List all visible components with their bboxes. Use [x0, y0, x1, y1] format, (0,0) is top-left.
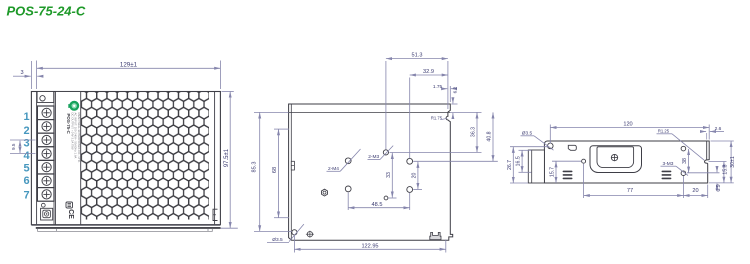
side vent slots right [662, 171, 672, 173]
dimension 20 vertical [413, 189, 422, 191]
front DC jack [41, 203, 45, 207]
svg-text:POS-75-24-C: POS-75-24-C [7, 4, 86, 19]
hole 2-M4 with leader [345, 158, 351, 164]
dimension 32.9 [409, 78, 411, 159]
svg-text:129±1: 129±1 [120, 62, 138, 69]
dimension 77 and 20 [583, 164, 585, 198]
dimension 1.75 [449, 86, 451, 102]
svg-text:32.9: 32.9 [423, 69, 434, 75]
svg-text:9.5: 9.5 [11, 143, 16, 150]
dimension 38 [688, 149, 690, 173]
svg-text:2: 2 [23, 125, 29, 137]
corner hole Ø3.5 [292, 230, 297, 235]
svg-text:CE: CE [67, 209, 74, 219]
svg-text:3-M3: 3-M3 [663, 161, 674, 167]
svg-text:Ø3.5: Ø3.5 [522, 130, 533, 136]
front bottom-right clip [213, 209, 218, 220]
dimension 36.3 [450, 111, 481, 113]
hole small center [384, 196, 388, 200]
chassis seam line [289, 111, 451, 113]
hole right top [407, 158, 413, 164]
dimension 15.3 [709, 161, 727, 163]
side hole Ø3.5 top left [548, 143, 554, 149]
svg-text:48.5: 48.5 [372, 202, 383, 208]
svg-text:R1.25: R1.25 [658, 128, 670, 133]
dimension 6.2 [451, 103, 457, 105]
svg-text:2-M4: 2-M4 [328, 166, 339, 172]
svg-text:15.3: 15.3 [722, 164, 728, 174]
svg-text:2-M3: 2-M3 [368, 154, 379, 160]
dimension 48.5 [347, 192, 349, 210]
svg-text:3: 3 [20, 70, 23, 76]
side hole right bottom 3-M3 [681, 171, 686, 176]
svg-text:38: 38 [682, 158, 688, 164]
svg-text:6.2: 6.2 [452, 86, 458, 93]
svg-text:16.5: 16.5 [516, 156, 522, 166]
leader R1.25 [672, 134, 704, 160]
dimension 33 [391, 153, 393, 198]
dimension 68 [274, 128, 289, 130]
side small D hole [568, 145, 576, 150]
plus mark [307, 232, 312, 237]
dimension 26.7 [510, 146, 548, 148]
svg-text:120: 120 [623, 122, 632, 128]
dimension 120 [549, 125, 551, 144]
dimension 30±1 [711, 140, 734, 142]
left edge tab [291, 161, 294, 170]
hole bottom left [345, 186, 351, 192]
dimension 129±1 [36, 61, 38, 90]
svg-text:20: 20 [692, 188, 698, 194]
front bottom rail [31, 224, 220, 226]
front view case outline [31, 92, 220, 225]
notch R1.75 label [442, 118, 448, 119]
svg-text:6: 6 [23, 175, 29, 187]
svg-text:15.7: 15.7 [550, 167, 556, 177]
label CE marks [66, 202, 73, 208]
svg-text:1.75: 1.75 [433, 84, 443, 90]
svg-text:97.5±1: 97.5±1 [224, 148, 230, 167]
svg-text:2.6: 2.6 [715, 126, 722, 132]
hole 2-M3 with leader [383, 150, 388, 155]
dimension 51.3 [385, 61, 387, 150]
svg-text:5: 5 [23, 162, 29, 174]
side view body outline [544, 141, 709, 183]
svg-text:33: 33 [386, 172, 392, 178]
dimension 40.8 [413, 160, 498, 162]
side recess with screw [590, 146, 642, 173]
terminal block with 7 screws [37, 106, 54, 120]
svg-text:1: 1 [23, 111, 29, 123]
bottom right bracket [430, 232, 441, 239]
bottom view plate outline [289, 104, 453, 240]
svg-text:68: 68 [272, 167, 278, 173]
dimension 9.5 terminal pitch [10, 139, 36, 141]
svg-text:Ø3.5: Ø3.5 [272, 237, 283, 243]
dimension 16.5 [519, 149, 532, 151]
svg-text:7: 7 [23, 190, 29, 202]
svg-text:3: 3 [23, 137, 29, 149]
side terminal block [528, 150, 544, 183]
svg-text:R1.75: R1.75 [431, 116, 443, 121]
svg-text:85.3: 85.3 [251, 162, 257, 173]
label panel [55, 92, 80, 225]
hex nut hole [322, 189, 328, 196]
dimension 3 [30, 61, 32, 89]
svg-text:6.9: 6.9 [716, 184, 722, 191]
side vent slots left [563, 171, 573, 173]
svg-text:51.3: 51.3 [412, 53, 423, 59]
svg-text:77: 77 [627, 188, 633, 194]
svg-text:4: 4 [23, 150, 30, 162]
side hole small [582, 159, 586, 163]
svg-text:MEAN WELL ENTERPRISES CO., LTD: MEAN WELL ENTERPRISES CO., LTD. [77, 113, 81, 163]
side hole right top [681, 146, 686, 151]
svg-text:POS-75-C: POS-75-C [66, 114, 71, 135]
front mounting ear with hole [37, 92, 54, 103]
dimension 6.9 [687, 172, 720, 174]
dimension 15.7 [552, 160, 581, 162]
svg-text:26.7: 26.7 [507, 160, 513, 170]
green MW logo [68, 104, 71, 108]
honeycomb vent grille [81, 92, 209, 220]
dimension 122.95 [293, 236, 295, 253]
hole bottom right [407, 187, 413, 193]
dimension 2.6 [706, 133, 708, 140]
svg-text:122.95: 122.95 [361, 244, 378, 250]
dimension 97.5±1 [222, 91, 234, 93]
dimension 85.3 [254, 111, 289, 113]
svg-text:20: 20 [412, 173, 418, 179]
svg-text:40.8: 40.8 [487, 131, 493, 141]
svg-text:30±1: 30±1 [730, 156, 736, 168]
svg-text:36.3: 36.3 [471, 127, 477, 137]
